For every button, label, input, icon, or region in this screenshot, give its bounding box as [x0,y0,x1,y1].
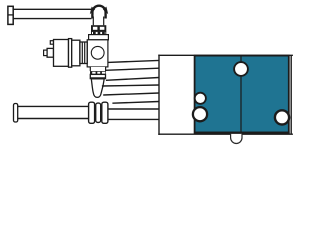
hole C4 (lower-right) [275,110,289,124]
hole C3 (large lower-left) [193,107,207,121]
union nut N1 (below elbow) [91,25,106,31]
cartridge cylinder [54,40,69,67]
outlet bell below box [231,134,242,144]
wire/pipe line L1 [108,60,159,62]
serrated ring S1 (teeth row) [92,31,106,34]
cartridge collar ring [69,39,72,68]
valve body B1 [87,40,108,67]
pipe P2 (bottom horizontal pipe, left section) [18,106,89,118]
wire/pipe line L6 [112,102,159,104]
teal mounting plate [194,56,290,133]
wall flange F1 (top-left pipe end) [8,6,13,24]
outlet spout (tapered bell) [91,79,104,98]
thermostat cartridge tiny stub [44,50,48,56]
pipe P1 (top horizontal pipe) [13,9,91,18]
hole C1 (top center) [234,62,248,76]
hole C2 (small left) [195,93,206,104]
cartridge top notch [50,41,53,45]
wall flange F2 (bottom-left pipe end) [14,104,18,123]
port circle on valve body [91,46,104,59]
ribbed nut band (black with windows) [90,71,106,74]
hex band under nut [90,74,105,78]
pipe P2 right section [108,109,159,119]
thermostat cartridge small stub [47,48,53,57]
threaded connector [80,42,87,64]
wire/pipe line L2 [105,68,159,70]
vertical center line through plate [240,56,242,133]
wire/pipe line L4 [102,85,159,86]
mounting box outline [158,55,293,135]
top flange cap of valve body [89,35,109,40]
wire/pipe line L5 [103,93,159,95]
coupling rib 2 [96,103,101,122]
wire/pipe line L3 [106,78,159,81]
lower neck under valve body [90,67,105,71]
coupling rib 3 [102,102,108,123]
cartridge second section [72,40,80,66]
coupling rib 1 [89,102,95,123]
elbow E1 (pipe elbow dome) [90,6,108,26]
